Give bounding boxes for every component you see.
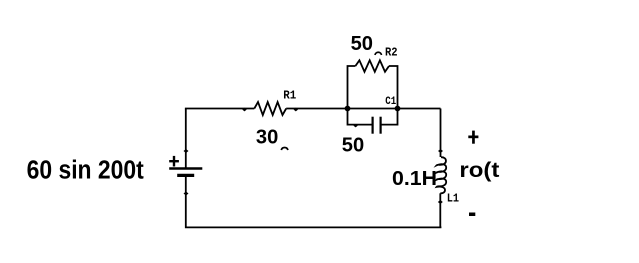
wire capacitor branch right [381, 109, 398, 125]
terminal tick above battery [184, 149, 189, 153]
omega arc after 30 [281, 148, 288, 151]
battery long plate [169, 167, 202, 170]
terminal tick above inductor [438, 149, 443, 153]
resistor R2 [355, 60, 389, 72]
terminal tick on capacitor branch [354, 124, 358, 127]
wire left vertical top (battery + terminal up to top rail) [185, 109, 187, 169]
node junction dot right of parallel section (node C1) [395, 106, 401, 112]
terminal tick below inductor [438, 200, 443, 204]
svg-text:30: 30 [256, 125, 278, 148]
capacitor C1 left plate [372, 117, 374, 134]
battery plus sign [169, 160, 179, 162]
svg-text:L1: L1 [447, 191, 459, 205]
wire right vertical above inductor [440, 109, 442, 158]
svg-text:60 sin 200t: 60 sin 200t [27, 156, 145, 184]
inductor L1 coil [437, 157, 447, 193]
battery short plate [177, 174, 194, 177]
svg-text:ro(t: ro(t [459, 158, 499, 182]
svg-text:R1: R1 [283, 89, 296, 103]
capacitor C1 right plate [380, 117, 382, 134]
wire right lead of R2 + parallel-box right vertical [389, 66, 398, 109]
svg-text:50: 50 [351, 32, 373, 55]
wire top rail right segment [286, 108, 440, 110]
terminal tick below battery [184, 192, 189, 196]
terminal tick right of R1 [294, 108, 298, 112]
svg-text:C1: C1 [385, 96, 396, 108]
wire bottom rail [186, 176, 441, 227]
wire top rail left segment [185, 108, 254, 110]
terminal tick left of R1 [242, 108, 246, 112]
output plus sign [468, 136, 478, 139]
wire parallel-box left vertical + left lead of R2 [348, 66, 356, 109]
wire capacitor branch left [348, 109, 373, 125]
svg-text:50: 50 [342, 134, 364, 157]
resistor R1 [254, 102, 286, 115]
node junction dot left of parallel section [345, 106, 351, 112]
wire right vertical below inductor [439, 193, 441, 227]
output minus sign [469, 213, 475, 217]
svg-text:R2: R2 [385, 45, 398, 59]
omega arc after 50 (R2) [375, 52, 382, 55]
svg-text:0.1H: 0.1H [392, 167, 437, 190]
